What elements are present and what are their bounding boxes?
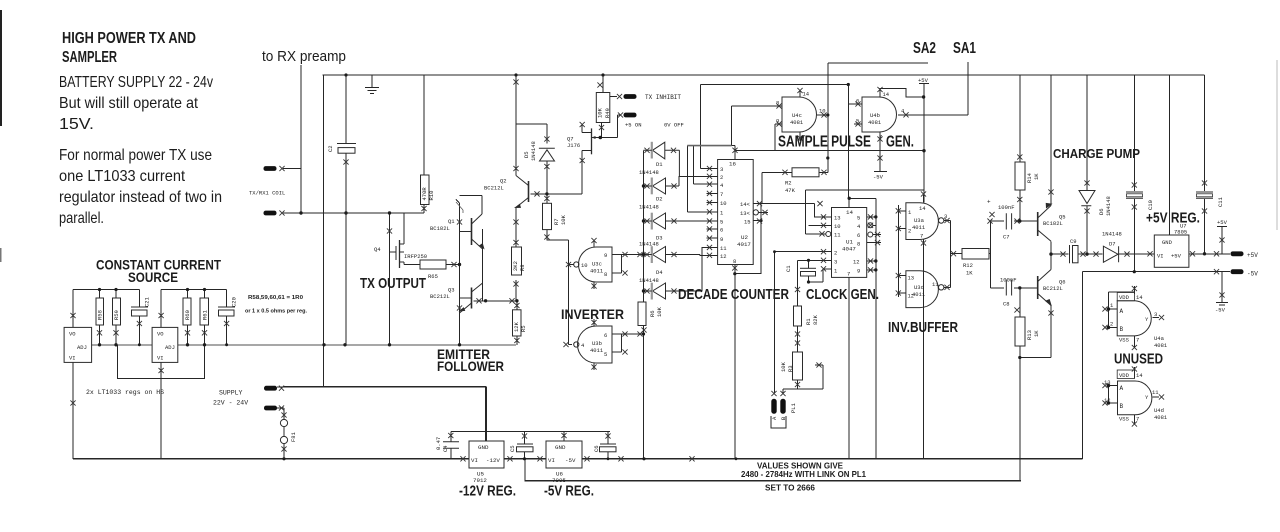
svg-text:13: 13 [908,275,915,282]
svg-text:100nF: 100nF [998,204,1015,211]
svg-text:Q4: Q4 [374,246,381,253]
svg-text:2480 - 2784Hz WITH LINK ON PL1: 2480 - 2784Hz WITH LINK ON PL1 [741,469,866,479]
svg-text:BC212L: BC212L [430,293,450,300]
svg-text:11: 11 [720,245,727,252]
svg-text:Q2: Q2 [500,178,507,185]
svg-text:1K: 1K [1033,330,1040,337]
svg-text:4017: 4017 [737,241,751,248]
svg-text:1: 1 [1110,302,1114,309]
svg-text:D1: D1 [656,161,663,168]
svg-text:1: 1 [908,209,912,216]
svg-text:+5V REG.: +5V REG. [1146,210,1200,227]
svg-text:C5: C5 [509,445,516,452]
svg-text:B: B [1120,403,1124,410]
svg-text:12K: 12K [513,321,520,332]
svg-text:4: 4 [581,342,585,349]
svg-text:R10: R10 [428,191,435,201]
svg-text:-12V: -12V [486,457,500,464]
svg-text:R5: R5 [520,325,527,332]
svg-text:A: A [771,416,778,420]
svg-text:-5V: -5V [873,174,884,181]
svg-text:12: 12 [1104,397,1111,404]
svg-text:14: 14 [803,91,810,98]
svg-text:470R: 470R [421,187,428,201]
svg-text:SET TO 2666: SET TO 2666 [765,483,815,493]
svg-text:1N4148: 1N4148 [639,241,659,248]
svg-text:7912: 7912 [473,477,487,484]
svg-text:5: 5 [720,219,723,226]
svg-text:10: 10 [834,223,841,230]
svg-text:SAMPLER: SAMPLER [62,49,117,66]
svg-text:DECADE COUNTER: DECADE COUNTER [678,286,789,303]
svg-text:BC182L: BC182L [1043,220,1063,227]
svg-text:GND: GND [555,444,566,451]
svg-text:FOLLOWER: FOLLOWER [437,358,504,374]
svg-text:1K: 1K [1033,173,1040,180]
svg-text:INVERTER: INVERTER [561,306,624,322]
svg-text:16: 16 [729,161,736,168]
svg-text:U4d: U4d [1154,407,1164,414]
svg-text:GND: GND [1162,239,1173,246]
svg-text:U3b: U3b [592,340,602,347]
svg-text:4047: 4047 [842,246,856,253]
svg-text:VI: VI [69,355,76,362]
svg-text:13: 13 [1104,379,1111,386]
svg-text:VI: VI [548,457,555,464]
svg-text:3: 3 [834,259,837,266]
svg-text:BC212L: BC212L [484,185,504,192]
svg-text:14: 14 [883,91,890,98]
svg-text:4011: 4011 [590,268,604,275]
svg-text:R58: R58 [97,310,104,320]
svg-text:10K: 10K [560,214,567,225]
svg-text:B: B [1120,326,1124,333]
svg-text:10K: 10K [780,361,787,372]
svg-text:15V.: 15V. [59,116,94,133]
svg-text:10K: 10K [656,306,663,317]
svg-text:R1: R1 [805,318,812,325]
svg-text:10: 10 [581,262,588,269]
svg-text:0.47: 0.47 [435,437,442,450]
svg-text:22V - 24V: 22V - 24V [213,400,248,407]
svg-text:U1: U1 [846,239,853,246]
svg-text:12: 12 [908,293,915,300]
svg-text:VO: VO [69,331,76,338]
svg-text:one LT1033 current: one LT1033 current [59,168,185,185]
svg-text:+5V: +5V [918,77,929,84]
svg-text:-5V: -5V [565,457,576,464]
svg-text:-12V REG.: -12V REG. [459,484,516,500]
svg-text:C10: C10 [1147,200,1154,210]
svg-text:R13: R13 [1026,330,1033,340]
svg-text:2: 2 [720,174,723,181]
svg-text:15: 15 [744,219,751,226]
svg-text:12: 12 [853,259,860,266]
svg-text:R7: R7 [553,218,560,225]
svg-text:SAMPLE PULSE: SAMPLE PULSE [778,134,871,151]
svg-text:parallel.: parallel. [59,210,104,227]
svg-text:8: 8 [776,100,779,107]
svg-text:6: 6 [856,98,859,105]
svg-text:SUPPLY: SUPPLY [219,390,243,397]
svg-text:R60: R60 [184,310,191,320]
svg-text:CHARGE PUMP: CHARGE PUMP [1053,147,1140,161]
svg-text:14: 14 [846,209,853,216]
svg-text:5: 5 [856,118,859,125]
svg-text:VI: VI [157,355,164,362]
svg-text:+5V: +5V [1217,219,1228,226]
svg-text:R12: R12 [963,262,973,269]
svg-text:14<: 14< [740,201,750,208]
svg-text:-5V REG.: -5V REG. [544,484,594,500]
svg-text:D2: D2 [656,196,663,203]
svg-text:4011: 4011 [590,347,604,354]
svg-text:VDD: VDD [1119,372,1130,379]
svg-text:10: 10 [720,200,727,207]
svg-text:1N4148: 1N4148 [639,277,659,284]
svg-text:14: 14 [919,205,926,212]
svg-text:+5V: +5V [1171,253,1182,260]
svg-text:6: 6 [720,227,723,234]
svg-text:7: 7 [1136,337,1139,344]
svg-text:+5V: +5V [1247,252,1258,259]
svg-text:11: 11 [1152,389,1159,396]
svg-text:VSS: VSS [1119,337,1130,344]
svg-text:6: 6 [604,332,607,339]
svg-text:3: 3 [1154,311,1157,318]
svg-text:2: 2 [908,228,911,235]
svg-text:For normal power TX use: For normal power TX use [59,147,212,164]
svg-text:82K: 82K [812,314,819,325]
svg-text:+5 ON: +5 ON [625,122,642,129]
svg-text:VI: VI [471,457,478,464]
svg-text:1N4148: 1N4148 [639,204,659,211]
svg-text:GEN.: GEN. [886,134,914,151]
svg-text:U2: U2 [741,234,748,241]
svg-text:7: 7 [847,271,850,278]
svg-text:9: 9 [776,118,779,125]
svg-text:D6: D6 [1098,208,1105,215]
svg-text:C11: C11 [1217,196,1224,207]
svg-text:7: 7 [720,191,723,198]
svg-text:C1: C1 [785,265,792,272]
svg-text:R58,59,60,61 = 1R0: R58,59,60,61 = 1R0 [248,295,303,301]
svg-text:7: 7 [1136,416,1139,423]
svg-text:10K: 10K [597,107,604,118]
svg-text:14: 14 [1136,294,1143,301]
svg-text:7: 7 [879,134,882,141]
svg-text:2K2: 2K2 [512,261,519,271]
svg-text:1N4148: 1N4148 [1102,231,1122,238]
svg-text:5: 5 [857,215,860,222]
svg-text:U4a: U4a [1154,335,1165,342]
svg-text:8: 8 [733,258,736,265]
svg-text:VO: VO [157,331,164,338]
svg-text:+: + [987,199,991,206]
svg-text:C6: C6 [593,445,600,452]
svg-text:U4c: U4c [792,112,802,119]
svg-text:C21: C21 [144,296,151,307]
svg-text:7805: 7805 [1174,229,1187,236]
svg-text:or 1 x 0.5 ohms per reg.: or 1 x 0.5 ohms per reg. [245,309,307,315]
svg-text:14: 14 [1136,372,1143,379]
svg-text:regulator instead of two in: regulator instead of two in [59,189,222,206]
svg-text:13: 13 [834,215,841,222]
svg-text:7: 7 [920,233,923,240]
svg-text:4011: 4011 [912,224,926,231]
svg-text:5: 5 [604,351,607,358]
svg-text:100nF: 100nF [1000,277,1017,284]
svg-text:ADJ: ADJ [77,344,87,351]
svg-text:TX INHIBIT: TX INHIBIT [645,94,681,101]
svg-text:R49: R49 [604,108,611,118]
svg-text:U3c: U3c [592,261,602,268]
svg-text:8: 8 [604,271,607,278]
svg-text:D4: D4 [656,269,663,276]
svg-text:Y: Y [1145,394,1149,401]
svg-text:R14: R14 [1026,172,1033,183]
svg-text:C20: C20 [231,297,238,307]
svg-text:1N4148: 1N4148 [530,141,537,161]
svg-text:3: 3 [720,166,723,173]
svg-text:U3a: U3a [914,217,925,224]
svg-text:7905: 7905 [552,477,566,484]
svg-text:13<: 13< [740,210,750,217]
svg-text:1N4148: 1N4148 [1105,196,1112,216]
svg-text:F81: F81 [290,431,297,442]
svg-text:4081: 4081 [790,119,804,126]
svg-text:R2: R2 [785,180,792,187]
svg-text:A: A [1120,308,1124,315]
svg-text:11: 11 [932,281,939,288]
svg-text:9: 9 [720,236,723,243]
svg-text:SA1: SA1 [953,40,976,57]
svg-text:SA2: SA2 [913,40,936,57]
svg-text:2: 2 [1110,321,1113,328]
svg-text:4081: 4081 [1154,414,1168,421]
svg-text:8: 8 [857,241,860,248]
svg-text:D5: D5 [523,151,530,158]
svg-text:Y: Y [1145,316,1149,323]
svg-text:C9: C9 [1070,238,1077,245]
svg-text:2: 2 [834,250,837,257]
svg-text:R8: R8 [519,264,526,271]
svg-text:1N4148: 1N4148 [639,169,659,176]
svg-text:BATTERY SUPPLY 22 - 24v: BATTERY SUPPLY 22 - 24v [59,74,213,91]
svg-text:TX OUTPUT: TX OUTPUT [360,275,426,292]
svg-text:R3: R3 [787,365,794,372]
svg-text:VI: VI [1157,253,1164,260]
svg-text:R6: R6 [649,310,656,317]
svg-text:C2: C2 [327,145,334,152]
svg-text:SOURCE: SOURCE [128,269,178,285]
svg-text:D7: D7 [1109,241,1116,248]
svg-text:HIGH POWER TX AND: HIGH POWER TX AND [62,30,196,47]
svg-text:J176: J176 [567,142,580,149]
svg-text:U4b: U4b [870,112,880,119]
svg-text:ADJ: ADJ [165,344,175,351]
svg-text:9: 9 [857,268,860,275]
svg-text:3: 3 [944,213,947,220]
svg-text:2x LT1033 regs on HS: 2x LT1033 regs on HS [86,389,164,396]
svg-text:BC212L: BC212L [1043,285,1063,292]
svg-text:1K: 1K [966,270,973,277]
svg-text:9: 9 [604,252,607,259]
svg-text:-5V: -5V [1215,307,1226,314]
svg-text:to RX preamp: to RX preamp [262,48,346,65]
svg-text:IRFP250: IRFP250 [404,253,427,260]
svg-text:C8: C8 [1003,301,1010,308]
svg-text:U3d: U3d [914,284,924,291]
svg-text:C7: C7 [1003,234,1010,241]
svg-text:Q1: Q1 [448,218,455,225]
svg-text:INV.BUFFER: INV.BUFFER [888,319,958,336]
svg-text:UNUSED: UNUSED [1114,351,1163,368]
svg-text:R59: R59 [113,310,120,320]
svg-text:47K: 47K [785,187,796,194]
svg-text:A: A [1120,385,1124,392]
svg-text:-5V: -5V [1247,271,1258,278]
svg-text:VSS: VSS [1119,416,1130,423]
svg-text:10: 10 [819,108,826,115]
svg-text:6: 6 [857,232,860,239]
svg-text:12: 12 [720,253,727,260]
svg-text:C4: C4 [442,445,449,452]
svg-text:0V OFF: 0V OFF [664,122,684,129]
svg-text:11: 11 [834,232,841,239]
svg-text:4081: 4081 [868,119,882,126]
svg-text:TX/RX1 COIL: TX/RX1 COIL [249,190,285,197]
svg-text:VDD: VDD [1119,294,1130,301]
svg-text:4081: 4081 [1154,342,1168,349]
svg-text:BC182L: BC182L [430,225,450,232]
svg-text:PL1: PL1 [790,402,797,413]
svg-text:CLOCK GEN.: CLOCK GEN. [806,286,879,303]
svg-text:GND: GND [478,444,489,451]
svg-text:R61: R61 [202,309,209,320]
svg-text:7: 7 [802,134,805,141]
svg-text:But will still operate at: But will still operate at [59,95,198,112]
svg-text:R65: R65 [428,273,438,280]
